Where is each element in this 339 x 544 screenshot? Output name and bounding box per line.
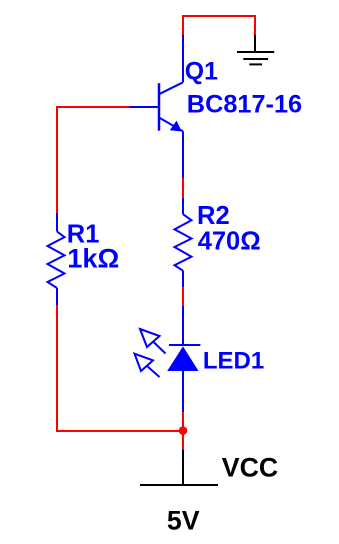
resistor R1 [48, 213, 65, 305]
wire: junction to VCC stub [182, 434, 184, 450]
wire: Q1 emitter to R2 top [182, 178, 184, 198]
svg-text:BC817-16: BC817-16 [187, 91, 302, 119]
wire: top net from Q1 collector to ground [183, 16, 255, 35]
svg-text:470Ω: 470Ω [198, 228, 261, 256]
junction dot [179, 426, 188, 435]
VCC power symbol [140, 450, 218, 485]
svg-text:LED1: LED1 [203, 347, 264, 374]
ground [237, 35, 274, 64]
wire: base net from R1 top to Q1 base [57, 107, 130, 213]
wire: R2 bottom to LED1 anode [182, 287, 184, 306]
svg-text:1kΩ: 1kΩ [67, 243, 119, 274]
LED1 triangle [167, 346, 198, 371]
LED1 diode [169, 306, 200, 412]
LED1 light arrow lower [135, 354, 160, 377]
LED1 light arrow upper [140, 329, 166, 354]
transistor Q1 emitter arrowhead [170, 121, 182, 132]
transistor Q1 [130, 35, 184, 178]
svg-text:Q1: Q1 [185, 58, 218, 85]
svg-text:R2: R2 [197, 202, 230, 230]
wire: from R1 bottom to bottom net [57, 305, 183, 431]
resistor R2 [175, 198, 192, 288]
svg-text:VCC: VCC [222, 452, 278, 482]
wire: LED1 cathode to junction [182, 412, 184, 430]
svg-text:5V: 5V [167, 505, 200, 535]
